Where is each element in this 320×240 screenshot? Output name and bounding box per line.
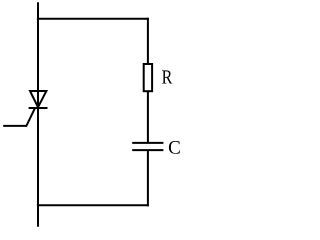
wire bottom horizontal xyxy=(37,204,149,206)
thyristor gate lead xyxy=(3,108,35,126)
capacitor C bottom plate xyxy=(132,149,163,151)
thyristor cathode bar xyxy=(29,107,48,109)
capacitor C top plate xyxy=(132,142,163,144)
thyristor triangle xyxy=(30,91,46,107)
label C xyxy=(169,141,180,154)
wire left vertical rail (anode-cathode) xyxy=(37,2,39,227)
wire top horizontal xyxy=(37,18,149,20)
wire resistor to capacitor xyxy=(147,91,149,142)
resistor R xyxy=(144,64,152,91)
wire right vertical top (to resistor) xyxy=(147,18,149,64)
wire capacitor to bottom xyxy=(147,150,149,206)
label R xyxy=(162,70,172,83)
